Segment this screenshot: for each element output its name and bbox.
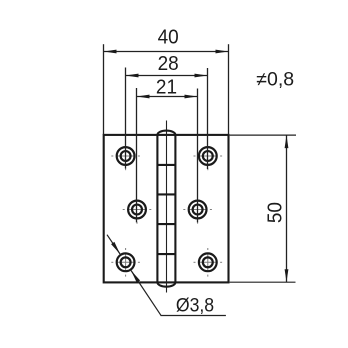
- svg-text:Ø3,8: Ø3,8: [176, 294, 214, 316]
- hole bottom-left: [117, 253, 135, 271]
- hole bottom-right crosshair: [194, 248, 223, 277]
- extension line 50 top: [230, 134, 296, 136]
- hinge leaf outline: [104, 135, 229, 283]
- hinge barrel: [157, 131, 175, 287]
- extension line 28 right: [207, 68, 209, 169]
- barrel knuckle line 1: [157, 164, 175, 166]
- leader line diameter 3,8: [107, 235, 120, 254]
- hole top-left crosshair: [111, 156, 140, 170]
- extension line 21 right: [197, 89, 199, 223]
- hole mid-right crosshair: [183, 210, 212, 224]
- svg-text:≠0,8: ≠0,8: [256, 69, 294, 91]
- hole mid-left: [128, 201, 146, 219]
- svg-text:21: 21: [156, 76, 177, 99]
- hole mid-left crosshair: [123, 210, 152, 224]
- dimension line 50: [286, 135, 288, 282]
- barrel knuckle line 2: [157, 193, 175, 195]
- dimension line 40: [104, 51, 229, 53]
- hole bottom-right: [199, 253, 217, 271]
- hole bottom-left crosshair: [111, 248, 140, 277]
- hole top-left: [117, 147, 135, 165]
- svg-text:40: 40: [158, 26, 179, 49]
- hinge barrel centerline: [166, 121, 168, 293]
- svg-text:28: 28: [158, 53, 179, 76]
- extension line 21 left: [136, 88, 138, 222]
- hole top-right crosshair: [194, 156, 223, 170]
- hole top-right: [199, 147, 217, 165]
- barrel knuckle line 4: [157, 253, 175, 255]
- svg-text:50: 50: [264, 202, 287, 223]
- extension line 40 right: [228, 44, 230, 135]
- dimension line 28: [126, 75, 208, 77]
- extension line 50 bottom: [230, 281, 296, 283]
- dimension line 21: [137, 96, 198, 98]
- extension line 28 left: [125, 68, 127, 169]
- barrel knuckle line 3: [157, 223, 175, 225]
- extension line 40 left: [103, 44, 105, 135]
- hole mid-right: [189, 201, 207, 219]
